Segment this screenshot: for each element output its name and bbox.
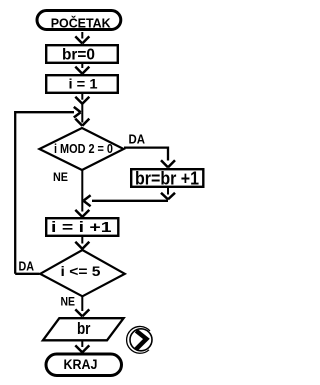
wire br=br+1 return down xyxy=(161,188,175,199)
svg-text:i = 1: i = 1 xyxy=(69,76,98,92)
wire i=i+1 to diamond 2 xyxy=(75,237,89,249)
svg-text:br=br +1: br=br +1 xyxy=(135,169,199,189)
svg-text:NE: NE xyxy=(61,297,76,309)
loop-back wire left column and top xyxy=(15,107,81,274)
wire br to KRAJ xyxy=(75,342,89,353)
svg-text:NE: NE xyxy=(53,172,68,184)
process i = 1 xyxy=(46,75,118,93)
svg-text:DA: DA xyxy=(19,259,35,274)
wire br=0 to i=1 xyxy=(75,64,89,74)
svg-text:i = i +1: i = i +1 xyxy=(51,219,112,236)
svg-text:br=0: br=0 xyxy=(62,47,95,64)
svg-text:POČETAK: POČETAK xyxy=(51,16,112,31)
svg-text:KRAJ: KRAJ xyxy=(64,357,98,372)
svg-text:i MOD 2 = 0: i MOD 2 = 0 xyxy=(54,141,113,156)
svg-text:i <= 5: i <= 5 xyxy=(61,263,101,279)
wire i=1 down to junction xyxy=(75,94,89,104)
wire diamond1 NE down to i=i+1 xyxy=(75,170,89,217)
logo icon circle swoosh xyxy=(127,326,152,353)
wire diamond2 NE down to output br xyxy=(75,297,89,317)
process br=0 xyxy=(46,45,118,63)
wire POCETAK to br=0 xyxy=(75,32,89,44)
terminal KRAJ xyxy=(46,354,122,376)
wire DA branch to br=br+1 xyxy=(124,148,175,168)
terminal POCETAK xyxy=(37,11,121,31)
decision diamond i MOD 2 = 0 xyxy=(39,128,123,170)
svg-text:br: br xyxy=(77,319,91,338)
svg-text:DA: DA xyxy=(129,132,146,147)
output parallelogram br xyxy=(43,318,124,340)
decision diamond i <= 5 xyxy=(40,250,125,296)
process br=br+1 xyxy=(131,169,203,189)
wire junction into diamond 1 xyxy=(75,103,89,126)
process i = i +1 xyxy=(46,218,118,236)
wire return horizontal to main line xyxy=(83,195,168,206)
